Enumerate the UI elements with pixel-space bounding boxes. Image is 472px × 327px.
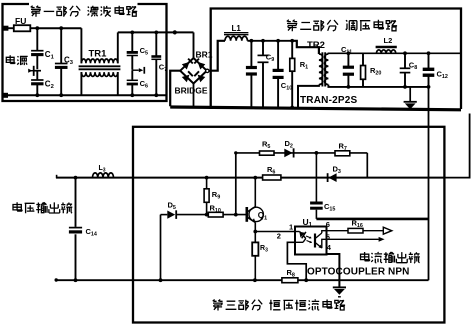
capacitor C8 bbox=[400, 53, 418, 87]
pin label 1 bbox=[289, 223, 293, 232]
node: C1 top junction bbox=[35, 26, 39, 30]
U1 emission arrows bbox=[306, 236, 312, 243]
wire: thick return H2 bbox=[316, 218, 428, 221]
wire: upper row y=153 bbox=[236, 152, 367, 154]
wire: bridge left output bbox=[170, 71, 180, 107]
fuse FU bbox=[14, 16, 38, 31]
node: C15 branch on upper row bbox=[315, 151, 319, 155]
label OPTOCOUPLER NPN bbox=[307, 267, 409, 278]
node: Q1 emitter junction bbox=[253, 230, 257, 234]
ground symbol part 3 bbox=[333, 287, 346, 296]
resistor R9 bbox=[204, 178, 220, 215]
wire: part3 bottom rail bbox=[55, 278, 429, 281]
node dots on bottom rail bbox=[35, 93, 158, 97]
capacitor C1 bbox=[31, 28, 54, 69]
svg-text:5: 5 bbox=[326, 233, 330, 242]
capacitor C3 bbox=[55, 28, 74, 95]
transformer TR1 label bbox=[89, 49, 108, 60]
AC source arrow at C1/C2 midpoint bbox=[28, 66, 41, 76]
resistor R6 on H1 bbox=[263, 165, 281, 180]
node: C14 junction on H1 bbox=[74, 176, 78, 180]
wire: pin 4 to ground bbox=[327, 254, 340, 287]
wire: top-left rail y=28 bbox=[37, 27, 81, 29]
svg-text:L1: L1 bbox=[232, 24, 242, 33]
svg-text:6: 6 bbox=[326, 220, 330, 229]
label: 电压输出端 voltage output terminal bbox=[13, 202, 72, 213]
U1 phototransistor bbox=[315, 231, 327, 249]
bridge diode bottom-right bbox=[194, 71, 205, 82]
optocoupler U1 box bbox=[295, 217, 327, 255]
svg-text:TR1: TR1 bbox=[89, 49, 108, 60]
resistor R1 bbox=[290, 41, 308, 109]
label BRIDGE bbox=[175, 86, 208, 96]
bridge diode bottom-left bbox=[182, 71, 193, 82]
node: riser top bbox=[234, 151, 237, 154]
svg-text:TRAN-2P2S: TRAN-2P2S bbox=[300, 95, 357, 106]
pin label 6 bbox=[326, 220, 330, 229]
node: C3 top junction bbox=[59, 26, 63, 30]
capacitor C11 bbox=[341, 45, 354, 87]
wire: bridge top riser bbox=[193, 32, 195, 58]
wire: bridge right output to part 2 bbox=[206, 41, 225, 73]
pin label 2 bbox=[277, 232, 281, 241]
wire: jog to TR2 primary top bbox=[292, 41, 319, 54]
capacitor C6 bbox=[127, 70, 148, 95]
capacitor C12 bbox=[423, 53, 448, 87]
diode D5 bbox=[161, 201, 207, 219]
transformer TR1 bbox=[79, 28, 121, 95]
pin label 5 bbox=[326, 233, 330, 242]
node: wire blob at box edge bbox=[173, 30, 177, 34]
input terminal top-left bbox=[3, 26, 8, 31]
resistor R20 bbox=[361, 53, 382, 87]
wire: TR2 primary bottom return bbox=[298, 85, 319, 109]
resistor R10 bbox=[208, 204, 246, 218]
wire: top-right rail y=32.4 bbox=[118, 31, 194, 33]
node: R9 top on H1 bbox=[205, 176, 209, 180]
label: 电流输出端 current output terminal bbox=[361, 252, 420, 263]
wire: R16 to arrow bbox=[363, 230, 383, 232]
capacitor C9 bbox=[258, 41, 275, 109]
svg-text:2: 2 bbox=[277, 232, 281, 241]
bridge diode top-left bbox=[182, 59, 193, 70]
transformer TR2 core bbox=[322, 52, 325, 86]
label BR1 bbox=[196, 50, 213, 60]
wire: bridge bottom drop bbox=[193, 84, 195, 107]
wire: upper row right drop to H1 bbox=[366, 153, 368, 178]
transformer TR2 primary winding bbox=[319, 54, 323, 85]
wire: pin 5 output bbox=[327, 238, 379, 240]
wire: TR2 secondary bottom rail bbox=[328, 85, 428, 87]
label: 电源 power source bbox=[6, 55, 27, 65]
node dots on bottom rail bbox=[74, 278, 309, 282]
resistor R7 bbox=[335, 142, 350, 156]
wire: TR2 secondary top to output rail bbox=[328, 52, 460, 55]
polarity arrow at C5/C6 midpoint bbox=[132, 67, 144, 74]
wire: C15 branch bbox=[315, 153, 317, 202]
inductor L2 bbox=[376, 36, 397, 53]
wire: D5 anode drop to bottom rail bbox=[160, 215, 162, 281]
title: part 2 调压电路 voltage regulation circuit bbox=[287, 20, 397, 32]
inductor L3 bbox=[93, 165, 114, 178]
output arrow small (filled) bbox=[379, 237, 385, 242]
part 3 enclosure box bbox=[133, 127, 444, 323]
input terminal bottom-left bbox=[3, 93, 8, 98]
transistor Q1 bbox=[247, 178, 268, 232]
wire: Q1 emitter to U1 pin 1 bbox=[255, 231, 295, 233]
capacitor C15 bbox=[310, 202, 335, 219]
wire: main output rail H1 bbox=[56, 175, 444, 178]
capacitor C10 bbox=[273, 41, 293, 109]
wire: AC live input to FU bbox=[6, 27, 14, 29]
resistor R16 bbox=[348, 219, 363, 234]
ground symbol part 2 bbox=[404, 87, 417, 109]
bridge diode top-right bbox=[194, 59, 205, 70]
wire: pin 2 to bottom rail bbox=[287, 242, 306, 280]
capacitor C14 bbox=[69, 178, 97, 281]
node: C5 top junction bbox=[130, 31, 134, 35]
U1 internal LED bbox=[295, 232, 306, 243]
output arrow (hollow) bbox=[383, 227, 392, 234]
node: Q1 collector on H1 bbox=[253, 176, 257, 180]
resistor R5 bbox=[260, 140, 275, 156]
svg-text:FU: FU bbox=[15, 16, 26, 26]
svg-text:BRIDGE: BRIDGE bbox=[175, 86, 208, 96]
capacitor (electrolytic) at L1 output bbox=[246, 41, 257, 109]
resistor R8 on bottom rail bbox=[282, 268, 298, 283]
node: C7 top junction bbox=[154, 31, 158, 35]
resistor R3 below Q1 emitter bbox=[252, 232, 268, 281]
node: riser bottom on base wire bbox=[234, 213, 238, 217]
part 1 enclosure box bbox=[3, 4, 167, 101]
node: R1 bottom junction bbox=[290, 106, 294, 110]
bridge rectifier BR1 diamond bbox=[180, 58, 207, 84]
diode D3 on H1 bbox=[328, 165, 341, 183]
node dots secondary top rail bbox=[347, 51, 431, 55]
diode D2 bbox=[284, 139, 293, 158]
label TRAN-2P2S bbox=[300, 95, 357, 106]
svg-text:1: 1 bbox=[289, 223, 293, 232]
wire: common bottom rail / part2 box bottom edge bbox=[170, 107, 461, 110]
svg-text:TR2: TR2 bbox=[307, 40, 325, 51]
svg-text:OPTOCOUPLER NPN: OPTOCOUPLER NPN bbox=[307, 267, 409, 278]
title: part 1 滤波电路 filter circuit bbox=[31, 6, 138, 17]
transformer TR2 secondary winding bbox=[325, 54, 329, 85]
node dots secondary bottom rail bbox=[347, 85, 431, 89]
inductor L1 bbox=[224, 24, 248, 41]
capacitor C5 bbox=[127, 32, 148, 69]
transformer TR2 label bbox=[307, 40, 325, 51]
capacitor C7 bbox=[151, 32, 167, 95]
wire: part2 ground drop to part3 bottom rail bbox=[428, 87, 430, 280]
pin label 4 bbox=[327, 243, 332, 252]
wire: pin 6 output through R16 bbox=[327, 230, 349, 232]
svg-text:L2: L2 bbox=[384, 36, 393, 45]
wire: upper row riser to Q1 base wire bbox=[235, 153, 237, 215]
title: part 3 恒压恒流电路 constant V/I circuit bbox=[213, 300, 345, 311]
part 2 enclosure box (left, top, right edges) bbox=[211, 9, 461, 110]
capacitor C2 bbox=[31, 71, 54, 96]
wire: part2 output drop (right edge) bbox=[444, 114, 469, 178]
wire: part2 primary top rail bbox=[247, 40, 292, 42]
node: R9/D5/R10 junction bbox=[205, 213, 209, 217]
node dots primary top bbox=[250, 39, 295, 43]
wire: part1 bottom rail bbox=[6, 94, 166, 96]
